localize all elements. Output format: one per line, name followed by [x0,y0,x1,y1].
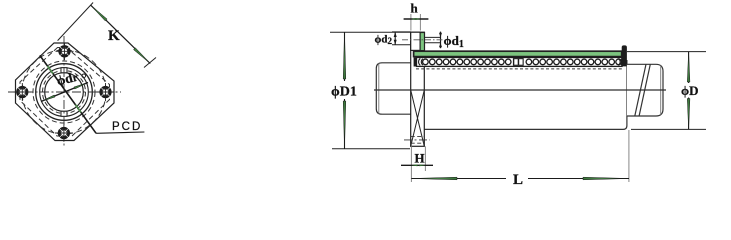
notch top [61,68,67,73]
retainer joint [513,58,524,66]
local centerline for d1/d2 [402,39,444,41]
balls [423,59,622,65]
K arrow lower [134,48,151,64]
svg-text:h: h [411,1,419,16]
notch bottom [61,111,67,116]
centerline horizontal [8,91,121,93]
H dimension [410,146,412,182]
K extension stub 2 [144,58,156,68]
K arrow upper [91,5,108,21]
K extension line 1 [58,3,94,41]
bolt hole top [56,43,74,61]
flange plate [411,32,425,146]
svg-text:H: H [415,151,425,166]
svg-text:K: K [108,28,120,44]
ball channel [417,58,623,67]
circle solid bore r19.3 [45,73,84,112]
shaft right [627,64,663,116]
K dimension line [91,5,151,63]
right seal cap [622,45,627,66]
small ring after dr label [82,74,86,78]
phi-D dimension [627,51,706,53]
flange X section [411,90,425,146]
boss cylinder left [376,63,412,114]
circle dashed r21.5 [43,71,86,114]
svg-text:ϕD: ϕD [681,83,699,98]
phi-dr dimension line [41,83,88,102]
svg-text:L: L [513,172,523,188]
centerline vertical [63,36,65,148]
svg-text:PCD: PCD [112,121,142,133]
cage dashed line [416,68,623,70]
green lip on flange [420,33,425,51]
circle solid r28.3 [36,64,93,121]
bolt hole notches [24,94,27,97]
left seal cap [414,58,417,67]
flange bolt hole hidden dashes [411,136,425,138]
left start arcs [419,59,423,66]
phi-d2 dimension [392,31,411,33]
main body outline [424,60,627,129]
L dimension [628,130,630,182]
flange octagon solid [16,43,115,141]
shaft break slashes [635,64,646,116]
lip white part outline [411,32,420,50]
flange octagon dashed inner [20,48,110,137]
circle dashed outer r31 [33,61,95,123]
PCD leader line [40,55,96,133]
phi-dr arrows [41,95,55,102]
phi-D1 dimension [330,31,411,33]
green segs on leader [48,66,54,74]
phi-d1 dimension [424,36,440,38]
circle solid r24.3 [40,68,89,117]
right end arcs [618,59,622,66]
green band [414,51,622,56]
axis centerline [374,89,666,91]
PCD underline [96,132,144,133]
bolt hole left [14,83,32,101]
bolt hole right [97,83,115,101]
h dimension [410,14,412,31]
bolt hole bottom [55,124,73,142]
svg-text:ϕD1: ϕD1 [331,85,357,100]
PCD dashed circle [22,50,106,134]
svg-text:ϕd2: ϕd2 [375,34,393,47]
